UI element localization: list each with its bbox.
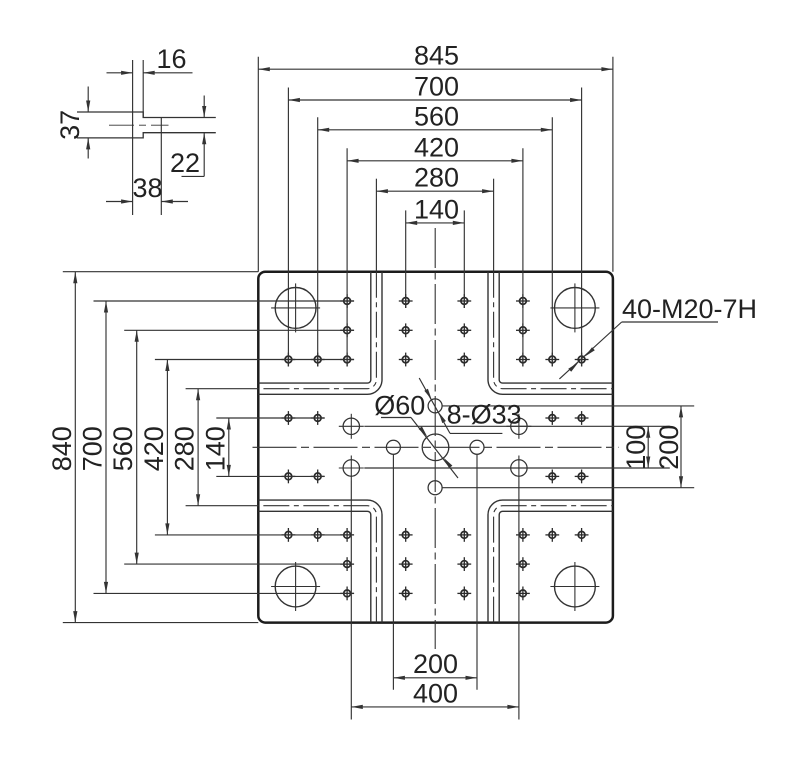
detail extension line V1 bbox=[132, 60, 134, 215]
top dimension 560 bbox=[317, 117, 319, 366]
right dimension 100 bbox=[647, 426, 649, 468]
vertical centerline bbox=[434, 228, 436, 649]
detail section: T-slot profile outline bbox=[77, 112, 216, 118]
left dimension 840 bbox=[63, 271, 258, 273]
svg-text:22: 22 bbox=[170, 148, 200, 178]
locating hole diameter 33 top bbox=[428, 399, 442, 413]
right dimension 100 extension lines bbox=[364, 425, 670, 427]
svg-text:280: 280 bbox=[414, 163, 459, 193]
bottom-right pocket boundary centerline bbox=[494, 506, 613, 623]
top dimension 140 bbox=[405, 210, 407, 308]
svg-text:700: 700 bbox=[414, 72, 459, 102]
bottom dimension 200 bbox=[393, 677, 477, 679]
ejector hole with crosshair lower-left bbox=[343, 460, 359, 476]
svg-text:8-Ø33: 8-Ø33 bbox=[447, 399, 522, 429]
bottom-left pocket boundary centerline bbox=[258, 506, 376, 623]
svg-text:560: 560 bbox=[108, 426, 138, 471]
left dimension 140 bbox=[216, 417, 324, 419]
locating hole diameter 33 bottom bbox=[428, 481, 442, 495]
ejector hole with crosshair upper-right bbox=[511, 418, 527, 434]
ejector hole with crosshair lower-right bbox=[511, 460, 527, 476]
svg-text:38: 38 bbox=[132, 173, 162, 203]
detail extension line V3 bbox=[160, 118, 162, 216]
svg-text:280: 280 bbox=[170, 426, 200, 471]
svg-text:560: 560 bbox=[414, 101, 459, 131]
svg-text:200: 200 bbox=[413, 649, 458, 679]
top-left pocket boundary (double line) bbox=[258, 272, 371, 383]
locating hole diameter 33 left bbox=[386, 440, 400, 454]
svg-text:700: 700 bbox=[78, 426, 108, 471]
top-right pocket boundary (double line) bbox=[488, 272, 613, 395]
central hole (diameter 60) bbox=[422, 434, 449, 461]
bottom-right pocket boundary (double line) bbox=[488, 500, 613, 622]
platen outline bbox=[258, 272, 613, 623]
svg-text:200: 200 bbox=[654, 425, 684, 470]
top-right pocket boundary centerline bbox=[494, 272, 613, 389]
dimension 22 (detail, tongue height) bbox=[203, 96, 205, 118]
left dimension 420 bbox=[155, 359, 354, 361]
bottom dimension 400 extension lines bbox=[350, 481, 352, 720]
svg-text:40-M20-7H: 40-M20-7H bbox=[622, 294, 757, 324]
tie-bar hole top-right bbox=[555, 288, 596, 329]
locating hole diameter 33 right bbox=[470, 440, 484, 454]
top dimension 845 bbox=[257, 57, 259, 272]
svg-text:400: 400 bbox=[413, 678, 458, 708]
svg-text:140: 140 bbox=[414, 194, 459, 224]
ejector hole with crosshair upper-left bbox=[343, 418, 359, 434]
tie-bar hole bottom-left bbox=[275, 566, 316, 607]
left dimension 280 bbox=[186, 388, 259, 390]
tie-bar hole bottom-right bbox=[555, 566, 596, 607]
svg-text:37: 37 bbox=[55, 110, 85, 140]
svg-text:845: 845 bbox=[414, 41, 459, 71]
svg-text:420: 420 bbox=[414, 132, 459, 162]
top dimension 420 bbox=[346, 148, 348, 366]
dimension 38 (detail, width) bbox=[106, 201, 133, 203]
svg-text:Ø60: Ø60 bbox=[374, 391, 425, 421]
right dimension 200 bbox=[680, 406, 682, 488]
top dimension 700 bbox=[287, 88, 289, 367]
right dimension 200 extension lines bbox=[442, 405, 694, 407]
tie-bar hole top-left bbox=[275, 288, 316, 329]
bottom dimension 200 extension lines bbox=[392, 454, 394, 690]
top dimension 280 bbox=[375, 179, 377, 272]
detail section: profile centerline bbox=[109, 124, 169, 126]
left dimension 700 bbox=[94, 300, 355, 302]
svg-text:140: 140 bbox=[200, 426, 230, 471]
top-left pocket boundary centerline bbox=[258, 272, 376, 389]
detail extension line V2 bbox=[142, 60, 144, 118]
svg-text:420: 420 bbox=[139, 426, 169, 471]
horizontal centerline bbox=[253, 446, 620, 448]
svg-text:100: 100 bbox=[621, 425, 651, 470]
bottom dimension 400 bbox=[351, 706, 519, 708]
left dimension 560 bbox=[124, 329, 354, 331]
svg-text:840: 840 bbox=[47, 426, 77, 471]
bottom-left pocket boundary (double line) bbox=[258, 511, 371, 622]
40x M20-7H tapped holes bbox=[282, 294, 589, 600]
dimension 16 (detail, slot width) bbox=[107, 72, 133, 74]
svg-text:16: 16 bbox=[156, 44, 186, 74]
dimension 37 (detail, height) bbox=[87, 87, 89, 113]
